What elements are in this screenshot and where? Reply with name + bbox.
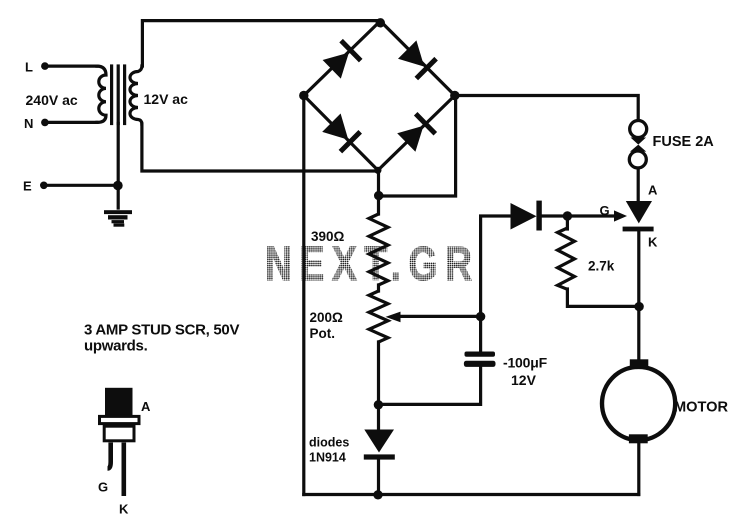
node: cathode / 2.7k junction: [634, 302, 643, 311]
wire diode to gate arrow start: [539, 214, 616, 217]
wire 1N914 diode to bottom rail: [377, 457, 380, 495]
wire core to earth junction: [117, 124, 120, 209]
resistor 390 ohm: [369, 214, 388, 285]
transformer T1 secondary winding: [130, 66, 142, 124]
node: earth junction: [113, 181, 123, 191]
fuse FS1: [629, 121, 646, 169]
svg-text:12V ac: 12V ac: [144, 91, 189, 107]
svg-text:E: E: [23, 178, 32, 193]
ground symbol (earth): [104, 210, 132, 227]
wire 2.7k top lead: [566, 216, 569, 229]
terminal E: [40, 182, 48, 190]
wire junction to right bridge node: [379, 96, 456, 197]
resistor 2.7k: [558, 228, 575, 289]
bridge diode D4 (bottom-right arm): [397, 114, 435, 152]
svg-text:G: G: [98, 480, 108, 495]
node: bridge bottom: [374, 167, 381, 174]
wire L terminal to primary: [46, 64, 97, 67]
svg-text:-100μF: -100μF: [503, 355, 548, 371]
motor M1: [602, 367, 675, 440]
bridge rectifier diamond wires: [304, 21, 455, 170]
bridge diode D3 (left-bottom arm): [322, 114, 360, 152]
wire SCR cathode down to motor: [637, 231, 640, 362]
svg-text:G: G: [600, 203, 610, 218]
terminal N: [41, 119, 49, 127]
diode D5 (gate, 1N914): [511, 203, 537, 230]
wire gate circuit top: corner to diode: [481, 216, 511, 351]
svg-text:1N914: 1N914: [309, 451, 346, 465]
node: pot bottom / cap bottom junction: [374, 400, 383, 409]
wire bridge junction to 390 ohm resistor: [377, 196, 380, 214]
bridge diode D2 (top-right arm): [398, 40, 436, 78]
svg-text:K: K: [119, 502, 129, 517]
svg-text:MOTOR: MOTOR: [674, 400, 729, 416]
svg-text:Pot.: Pot.: [310, 326, 336, 341]
node: below bridge: [374, 191, 383, 200]
svg-text:A: A: [141, 399, 151, 414]
potentiometer wiper arrow: [386, 312, 401, 323]
stud SCR package drawing: [100, 388, 140, 496]
wire left bridge node down to bottom rail: [302, 96, 305, 495]
wire pot wiper: [394, 315, 481, 318]
svg-text:3 AMP STUD SCR, 50V: 3 AMP STUD SCR, 50V: [84, 322, 239, 339]
wire motor bottom to rail: [637, 441, 640, 495]
wire capacitor bottom to junction: [378, 367, 480, 404]
bridge diode D1 (left-top arm): [323, 41, 361, 79]
svg-text:L: L: [25, 60, 33, 75]
capacitor C1 100uF plates: [465, 352, 496, 357]
svg-text:240V ac: 240V ac: [26, 92, 78, 108]
wire N terminal to primary: [46, 121, 97, 124]
SCR Q1: [626, 201, 652, 223]
wire top rail: [142, 21, 380, 66]
svg-text:A: A: [648, 183, 658, 198]
svg-text:390Ω: 390Ω: [311, 229, 345, 244]
svg-text:K: K: [648, 235, 658, 250]
SCR gate arrow: [614, 210, 627, 221]
terminal L: [41, 62, 49, 70]
wire bridge bottom node to junction: [377, 170, 380, 196]
svg-text:FUSE 2A: FUSE 2A: [653, 134, 715, 150]
wire pot to diode junction: [377, 342, 380, 429]
wire secondary bottom to bridge bottom node: [142, 124, 378, 171]
svg-text:2.7k: 2.7k: [588, 259, 615, 274]
wire right bridge node to fuse: [455, 96, 638, 121]
node: bridge top: [376, 18, 385, 27]
node: diode bottom rail junction: [373, 490, 382, 499]
wire between 390 ohm and pot: [377, 285, 380, 291]
transformer T1 core: [110, 66, 113, 124]
wire bottom rail: [304, 493, 639, 496]
wire earth lead: [45, 184, 118, 187]
svg-text:N: N: [24, 116, 33, 131]
node: bridge left: [299, 91, 308, 100]
svg-text:upwards.: upwards.: [84, 338, 148, 355]
node: bridge right: [450, 91, 459, 100]
svg-text:12V: 12V: [511, 372, 537, 388]
svg-text:200Ω: 200Ω: [310, 310, 344, 325]
potentiometer 200 ohm: [369, 291, 388, 342]
wire fuse to SCR anode: [637, 168, 640, 201]
node: gate / 2.7k junction: [563, 211, 572, 220]
transformer T1 primary winding: [97, 66, 106, 122]
node: wiper / cap junction: [476, 312, 485, 321]
wire 2.7k bottom lead to cathode line: [567, 289, 639, 306]
diode D6 1N914 (vertical): [364, 430, 394, 453]
svg-text:diodes: diodes: [309, 436, 349, 450]
